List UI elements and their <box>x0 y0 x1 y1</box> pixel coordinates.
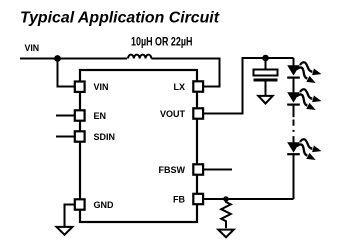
svg-text:SDIN: SDIN <box>94 132 116 142</box>
svg-text:FB: FB <box>173 194 185 204</box>
svg-text:Typical Application Circuit: Typical Application Circuit <box>20 9 220 26</box>
svg-text:VOUT: VOUT <box>160 109 186 119</box>
svg-text:FBSW: FBSW <box>159 165 186 175</box>
svg-text:10µH OR 22µH: 10µH OR 22µH <box>131 36 193 48</box>
svg-text:LX: LX <box>173 82 185 92</box>
svg-text:VIN: VIN <box>25 43 40 53</box>
svg-text:EN: EN <box>94 111 107 121</box>
svg-text:VIN: VIN <box>94 82 109 92</box>
svg-text:GND: GND <box>94 200 115 210</box>
